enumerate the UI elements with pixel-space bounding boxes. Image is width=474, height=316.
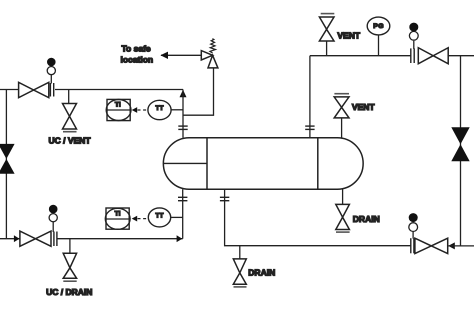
cap under DRAIN valve 1 [234, 286, 247, 288]
cap under DRAIN valve 2 [336, 231, 350, 233]
svg-text:PG: PG [373, 23, 384, 30]
wire PSV outlet to safe location [161, 54, 201, 56]
flow arrow at bottom-left nozzle [177, 235, 183, 242]
vessel heat exchanger shell [163, 138, 363, 190]
flow arrow into bottom-left valve [14, 235, 20, 242]
valve bottom-right gate valve [415, 238, 448, 253]
wire vessel bottom-right nozzle [342, 188, 344, 204]
spectacle blind bottom-right [409, 213, 418, 239]
valve left bypass (closed, filled) [0, 144, 15, 174]
svg-text:TI: TI [115, 102, 121, 109]
wire vessel bottom nozzle 2 down and right [225, 189, 411, 246]
wire VENT valve 1 stem [326, 41, 328, 56]
wire top-left pipe to riser [55, 89, 183, 91]
instrument TT top [148, 100, 171, 119]
cap under UC/DRAIN valve [63, 280, 76, 282]
wire PSV inlet connection [183, 68, 214, 115]
wire bottom-left pipe to vessel nozzle [57, 238, 183, 240]
flange vessel bottom-left nozzle [178, 197, 187, 200]
wire VENT valve 2 stem [341, 118, 343, 138]
spectacle blind top-right [409, 23, 418, 49]
flange break top-right [411, 48, 414, 63]
wire top-right header pipe [310, 55, 411, 57]
vessel pass partition [163, 162, 207, 164]
vessel right tubesheet [317, 138, 319, 190]
wire branch to UC/VENT valve [68, 90, 70, 104]
valve DRAIN 2 [336, 204, 350, 229]
wire top-left inlet pipe [0, 89, 19, 91]
flow arrow PSV outlet [160, 52, 168, 59]
wire TT top to riser [171, 109, 183, 111]
instrument TI bottom (square + circle) [105, 208, 130, 229]
instrument PG pressure gauge [367, 17, 390, 56]
valve VENT 2 [334, 97, 349, 118]
flange vessel top-left nozzle [178, 126, 187, 129]
valve UC/VENT [63, 104, 77, 130]
wire bottom-left inlet pipe [0, 238, 20, 240]
spectacle blind bottom-left [49, 205, 58, 232]
valve VENT 1 [319, 17, 334, 41]
wire bottom-right pipe to edge [448, 245, 474, 247]
flow arrow up at riser junction [180, 90, 187, 97]
valve right bypass (closed, filled) [451, 127, 469, 161]
svg-text:location: location [121, 55, 154, 65]
svg-text:VENT: VENT [337, 30, 360, 40]
cap above VENT valve 1 [321, 13, 335, 15]
flange vessel bottom nozzle 2 [220, 197, 229, 200]
wire top-right pipe to edge [448, 55, 474, 57]
cap under UC/VENT valve [63, 131, 77, 133]
valve bottom-left gate valve [20, 231, 51, 246]
valve DRAIN 1 [233, 259, 246, 284]
wire right bypass vertical pipe [460, 56, 462, 246]
flange vessel top-right nozzle [305, 126, 314, 129]
svg-text:TI: TI [115, 211, 121, 218]
relief valve PSV [201, 51, 218, 68]
cap above VENT valve 2 [334, 93, 349, 95]
flange break top-left [50, 83, 53, 97]
vessel left tubesheet [206, 138, 208, 190]
svg-text:DRAIN: DRAIN [353, 214, 380, 224]
instrument TT bottom [148, 208, 170, 227]
svg-text:To safe: To safe [122, 44, 151, 54]
wire top-right riser to vessel nozzle [309, 56, 311, 138]
valve UC/DRAIN [63, 253, 76, 278]
svg-text:UC / VENT: UC / VENT [48, 135, 91, 145]
flow arrow into bottom-right valve [448, 242, 455, 249]
spring of PSV [210, 39, 216, 53]
signal dashed arrow TT->TI top [132, 107, 148, 113]
svg-text:DRAIN: DRAIN [248, 268, 275, 278]
wire branch to DRAIN valve 1 [239, 246, 241, 259]
instrument TI top (square + circle) [106, 99, 131, 120]
signal dashed arrow TT->TI bottom [132, 216, 148, 222]
wire branch to UC/DRAIN valve [69, 239, 71, 254]
spectacle blind top-left (stem + circles) [47, 58, 56, 84]
svg-text:VENT: VENT [352, 102, 375, 112]
wire TT bottom to nozzle riser [171, 216, 183, 218]
flange break bottom-right [411, 238, 414, 253]
valve top-left gate valve [19, 82, 49, 97]
wire vessel bottom-left nozzle to drain pipe [182, 189, 184, 239]
flange break bottom-left [54, 232, 57, 247]
wire riser to vessel top-left nozzle [182, 90, 184, 138]
svg-text:TT: TT [156, 105, 164, 112]
svg-text:UC / DRAIN: UC / DRAIN [46, 287, 92, 297]
wire left bypass vertical pipe [5, 90, 7, 239]
svg-text:TT: TT [156, 213, 164, 220]
valve top-right gate valve [418, 48, 448, 64]
